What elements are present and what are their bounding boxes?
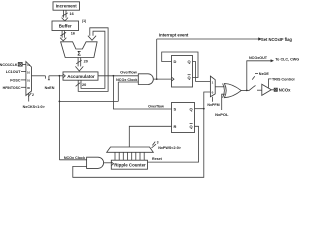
svg-text:TRIS Control: TRIS Control [272, 77, 295, 81]
svg-text:01: 01 [27, 79, 30, 83]
svg-text:16: 16 [70, 12, 74, 16]
svg-text:NCOx Clock: NCOx Clock [64, 156, 86, 160]
svg-text:NxPOL: NxPOL [215, 112, 229, 117]
svg-text:Overflow: Overflow [148, 105, 164, 109]
svg-text:NCO1CLK: NCO1CLK [0, 63, 18, 67]
svg-text:Increment: Increment [56, 4, 78, 9]
svg-text:2: 2 [32, 93, 34, 97]
svg-text:00: 00 [27, 86, 30, 90]
svg-text:Overflow: Overflow [120, 70, 138, 75]
svg-text:Q: Q [187, 59, 190, 64]
svg-text:NCOxOUT: NCOxOUT [249, 56, 268, 60]
svg-text:Set NCOxIF flag: Set NCOxIF flag [261, 37, 292, 42]
svg-text:Interrupt event: Interrupt event [159, 32, 189, 37]
svg-text:20: 20 [84, 60, 88, 64]
svg-text:Q: Q [187, 75, 190, 80]
svg-text:R: R [174, 124, 177, 129]
svg-text:S: S [174, 106, 177, 111]
svg-text:To CLC, CWG: To CLC, CWG [275, 57, 299, 61]
svg-text:NxPWS<2:0>: NxPWS<2:0> [158, 146, 181, 150]
svg-text:Reset: Reset [152, 157, 163, 161]
svg-text:Q: Q [189, 124, 192, 129]
svg-text:LC1OUT: LC1OUT [6, 70, 21, 74]
svg-text:3: 3 [157, 140, 159, 144]
svg-text:NxPFM: NxPFM [207, 103, 219, 107]
svg-text:NxCKS<1:0>: NxCKS<1:0> [23, 105, 45, 109]
svg-text:Ripple Counter: Ripple Counter [114, 163, 146, 168]
svg-text:NCOx: NCOx [279, 87, 291, 92]
svg-text:10: 10 [27, 70, 30, 74]
svg-text:16: 16 [71, 32, 75, 36]
svg-text:HFINTOSC: HFINTOSC [3, 86, 21, 90]
svg-text:20: 20 [82, 83, 86, 87]
svg-text:Buffer: Buffer [59, 23, 72, 28]
svg-text:(1): (1) [82, 19, 86, 23]
svg-text:Σ: Σ [77, 51, 81, 57]
svg-text:Accumulator: Accumulator [67, 74, 95, 79]
svg-text:FOSC: FOSC [10, 78, 21, 82]
svg-text:NxEN: NxEN [45, 86, 55, 90]
svg-text:Q: Q [189, 106, 192, 111]
svg-text:NCOx Clock: NCOx Clock [116, 78, 138, 82]
svg-text:D: D [174, 59, 177, 64]
svg-text:NxOE: NxOE [259, 72, 270, 76]
